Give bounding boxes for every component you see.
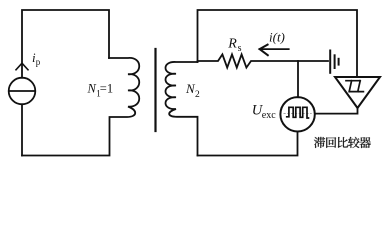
svg-text:p: p bbox=[36, 57, 41, 67]
svg-text:=1: =1 bbox=[100, 82, 113, 96]
svg-text:N: N bbox=[87, 82, 97, 96]
svg-text:exc: exc bbox=[262, 110, 276, 121]
svg-text:2: 2 bbox=[195, 90, 200, 100]
svg-text:R: R bbox=[227, 37, 237, 52]
svg-text:i(t): i(t) bbox=[269, 30, 285, 45]
svg-text:s: s bbox=[238, 43, 242, 54]
